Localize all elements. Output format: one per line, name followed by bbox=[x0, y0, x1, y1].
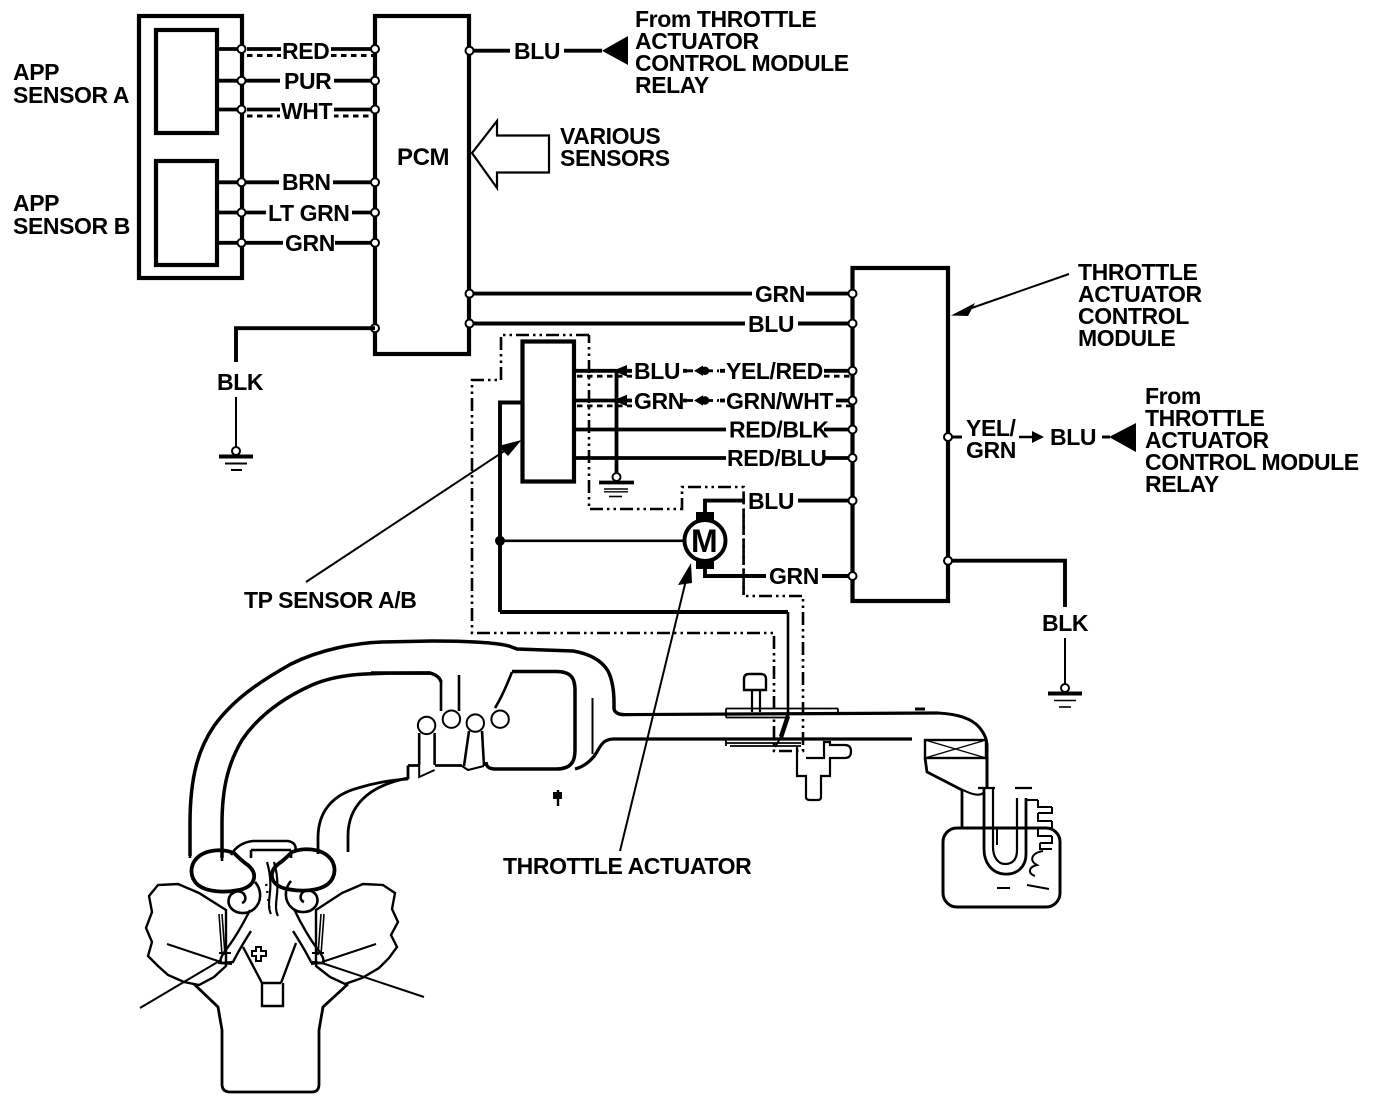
pin circles PCM left edge bbox=[371, 45, 379, 332]
TP ground lead vertical bbox=[615, 371, 619, 473]
solid link line into throttle body bbox=[781, 716, 788, 737]
plenum right bulb bbox=[272, 849, 335, 890]
small tab below duct bbox=[557, 790, 559, 806]
svg-text:LT GRN: LT GRN bbox=[268, 200, 350, 226]
throttle actuator motor M1 bbox=[685, 520, 726, 561]
APP sensor B inner box bbox=[156, 161, 217, 265]
plenum dome bbox=[231, 841, 296, 855]
svg-text:TP SENSOR A/B: TP SENSOR A/B bbox=[244, 587, 416, 613]
airbox inner vertical bbox=[996, 829, 998, 845]
intake duct outer top curve bbox=[190, 641, 624, 856]
wire GRN / GRN/WHT row bbox=[574, 399, 852, 403]
pin circle PCM right top bbox=[466, 47, 474, 55]
funnel box bbox=[262, 983, 283, 1006]
arrowhead to relay (solid left triangle) bbox=[602, 36, 628, 65]
wire to motor bbox=[500, 539, 684, 542]
port circle 2 bbox=[443, 711, 460, 728]
wire YEL/GRN right of TAC bbox=[948, 436, 962, 439]
plenum inner rect bbox=[251, 850, 291, 858]
pipe lower plate bbox=[726, 739, 801, 746]
right swirl bbox=[286, 881, 318, 912]
splice dot/arrow GRN-GRN/WHT bbox=[687, 399, 719, 402]
throttle plate line bbox=[592, 698, 594, 754]
PCM box U1 bbox=[375, 16, 469, 354]
svg-text:WHT: WHT bbox=[281, 98, 333, 124]
right diagonals bbox=[322, 944, 424, 997]
V funnel bbox=[243, 943, 296, 983]
chamber bottom left foot bbox=[486, 762, 495, 769]
ground (left) bbox=[232, 447, 240, 455]
X coupling box bbox=[925, 740, 986, 758]
svg-text:GRN/WHT: GRN/WHT bbox=[726, 388, 833, 414]
svg-text:BLU: BLU bbox=[634, 358, 680, 384]
svg-text:PCM: PCM bbox=[397, 144, 449, 171]
ground (TP sensor) bbox=[613, 473, 621, 481]
junction triangles on TP rows bbox=[613, 365, 627, 377]
wire bottom link bbox=[500, 610, 788, 614]
connector APP sensors outer box bbox=[139, 16, 242, 278]
snorkel U tube outer bbox=[984, 787, 1026, 874]
wire BLK from TAC right to ground bbox=[948, 561, 1065, 607]
airbox squiggle bbox=[1030, 851, 1043, 876]
svg-text:BLK: BLK bbox=[217, 369, 264, 395]
nipple stem bbox=[752, 691, 760, 712]
svg-text:THROTTLE ACTUATOR: THROTTLE ACTUATOR bbox=[503, 853, 752, 879]
left diagonals bbox=[140, 944, 221, 1008]
center channel S lines bbox=[267, 862, 278, 916]
svg-text:BLU: BLU bbox=[748, 311, 794, 337]
right valve cover bbox=[316, 884, 398, 984]
snorkel top flare bbox=[978, 787, 1032, 789]
nipple cap bbox=[744, 674, 766, 690]
svg-text:PUR: PUR bbox=[284, 68, 332, 94]
wire GRN PCM to TAC bbox=[469, 292, 853, 296]
wire BLU motor to TAC bbox=[705, 501, 853, 513]
wire BLK from PCM left to ground bbox=[236, 328, 375, 362]
wire GRN bbox=[217, 241, 373, 245]
svg-text:MODULE: MODULE bbox=[1078, 325, 1175, 351]
svg-text:GRN: GRN bbox=[769, 563, 819, 589]
engine block bbox=[194, 984, 348, 1092]
pipe right end outer curve bbox=[938, 713, 987, 789]
wire PUR bbox=[217, 79, 373, 83]
wire RED (solid+dash) bbox=[217, 47, 373, 51]
wire RED/BLU bbox=[574, 456, 852, 460]
svg-text:RED: RED bbox=[282, 38, 329, 64]
pin circles APP box right edge bbox=[238, 45, 246, 247]
duct bottom wall outer (to right down-leg) bbox=[348, 766, 408, 853]
lead to ground bbox=[235, 397, 237, 447]
svg-text:BRN: BRN bbox=[282, 169, 331, 195]
svg-text:GRN: GRN bbox=[755, 281, 805, 307]
left swirl bbox=[229, 882, 261, 913]
pipe top line bbox=[624, 713, 938, 715]
TP sensor A/B box bbox=[523, 342, 575, 482]
svg-text:BLU: BLU bbox=[748, 488, 794, 514]
dotted seam bbox=[266, 884, 270, 909]
descending duct to airbox bbox=[925, 758, 962, 828]
bump on pipe bbox=[915, 708, 925, 711]
svg-text:BLU: BLU bbox=[514, 38, 560, 64]
duct inner top shelf right bbox=[371, 671, 430, 675]
motor wire junction dot bbox=[495, 536, 505, 546]
center cross bbox=[252, 947, 266, 961]
dash-dot link below motor bbox=[742, 509, 745, 596]
short wire + relay arrowhead bbox=[1102, 436, 1110, 439]
pin circle TAC right bbox=[944, 433, 952, 441]
splice arrow right bbox=[1019, 436, 1037, 438]
ground (right) bbox=[1061, 684, 1069, 692]
svg-text:GRN: GRN bbox=[966, 437, 1016, 463]
intake duct inner top curve bbox=[222, 673, 441, 858]
resonator chamber bbox=[495, 672, 575, 770]
svg-text:RELAY: RELAY bbox=[1145, 471, 1219, 497]
VARIOUS SENSORS arrow (outline) bbox=[472, 121, 549, 188]
svg-text:SENSORS: SENSORS bbox=[560, 145, 670, 171]
wire BLU from PCM to relay (top) bbox=[469, 49, 602, 53]
pin circles TAC left edge bbox=[849, 290, 857, 580]
chamber diagonal left edge + hook around c4 bbox=[495, 672, 512, 708]
wire BRN bbox=[217, 180, 373, 184]
duct base line bbox=[408, 764, 462, 767]
svg-text:M: M bbox=[691, 523, 717, 559]
duct bottom right curve to pipe bbox=[575, 739, 612, 769]
hanging stub lines bbox=[441, 675, 459, 711]
wire BLU PCM to TAC bbox=[469, 322, 853, 326]
standing stub lines c1 bbox=[419, 733, 434, 765]
plenum left bulb bbox=[191, 850, 254, 891]
pin circles PCM right bbox=[466, 290, 474, 298]
wire WHT (solid+dash) bbox=[217, 108, 373, 112]
right stick bbox=[318, 914, 324, 955]
left valve cover bbox=[146, 884, 226, 985]
bracket body below pipe bbox=[797, 742, 851, 800]
svg-text:GRN: GRN bbox=[634, 388, 684, 414]
svg-text:SENSOR B: SENSOR B bbox=[13, 213, 130, 239]
port circle 4 bbox=[491, 711, 508, 728]
wire BLU / YEL/RED row bbox=[574, 369, 852, 373]
air cleaner box bbox=[928, 828, 962, 894]
pipe bottom line bbox=[612, 737, 912, 740]
svg-text:RELAY: RELAY bbox=[635, 72, 709, 98]
wire LT GRN bbox=[217, 211, 373, 215]
svg-text:SENSOR A: SENSOR A bbox=[13, 82, 129, 108]
svg-text:BLK: BLK bbox=[1042, 610, 1089, 636]
Throttle Actuator Control Module box bbox=[853, 268, 949, 601]
dash-dot boundary around TP sensor bbox=[472, 335, 803, 751]
standing stub diagonals c3 bbox=[464, 731, 484, 766]
duct bottom wall inner bbox=[318, 779, 408, 854]
pipe upper plate bbox=[726, 709, 838, 718]
duct down-leg walls bbox=[190, 856, 222, 861]
svg-text:RED/BLU: RED/BLU bbox=[727, 445, 826, 471]
left runner tube bbox=[221, 910, 251, 963]
duct bottom under ports bbox=[419, 765, 484, 777]
wire RED/BLK bbox=[574, 428, 852, 432]
svg-text:GRN: GRN bbox=[285, 230, 335, 256]
splice dot/arrow BLU-YEL/RED bbox=[687, 369, 719, 372]
left runner foot bbox=[218, 953, 232, 964]
svg-text:BLU: BLU bbox=[1050, 424, 1096, 450]
TP sensor step outline bbox=[500, 403, 523, 613]
svg-text:YEL/RED: YEL/RED bbox=[726, 358, 823, 384]
leader arrow to TAC bbox=[963, 274, 1069, 311]
airbox inner marks bbox=[997, 885, 1049, 889]
APP sensor A inner box bbox=[156, 30, 217, 133]
port circle 1 bbox=[418, 717, 435, 734]
corrugations bbox=[1026, 800, 1052, 849]
port circle 3 bbox=[467, 714, 484, 731]
left stick bbox=[219, 914, 225, 955]
wire GRN motor to TAC bbox=[705, 568, 853, 576]
right runner foot bbox=[311, 953, 325, 964]
svg-text:RED/BLK: RED/BLK bbox=[729, 417, 829, 443]
snorkel U tube inner bbox=[993, 789, 1017, 864]
right runner tube bbox=[293, 909, 323, 963]
